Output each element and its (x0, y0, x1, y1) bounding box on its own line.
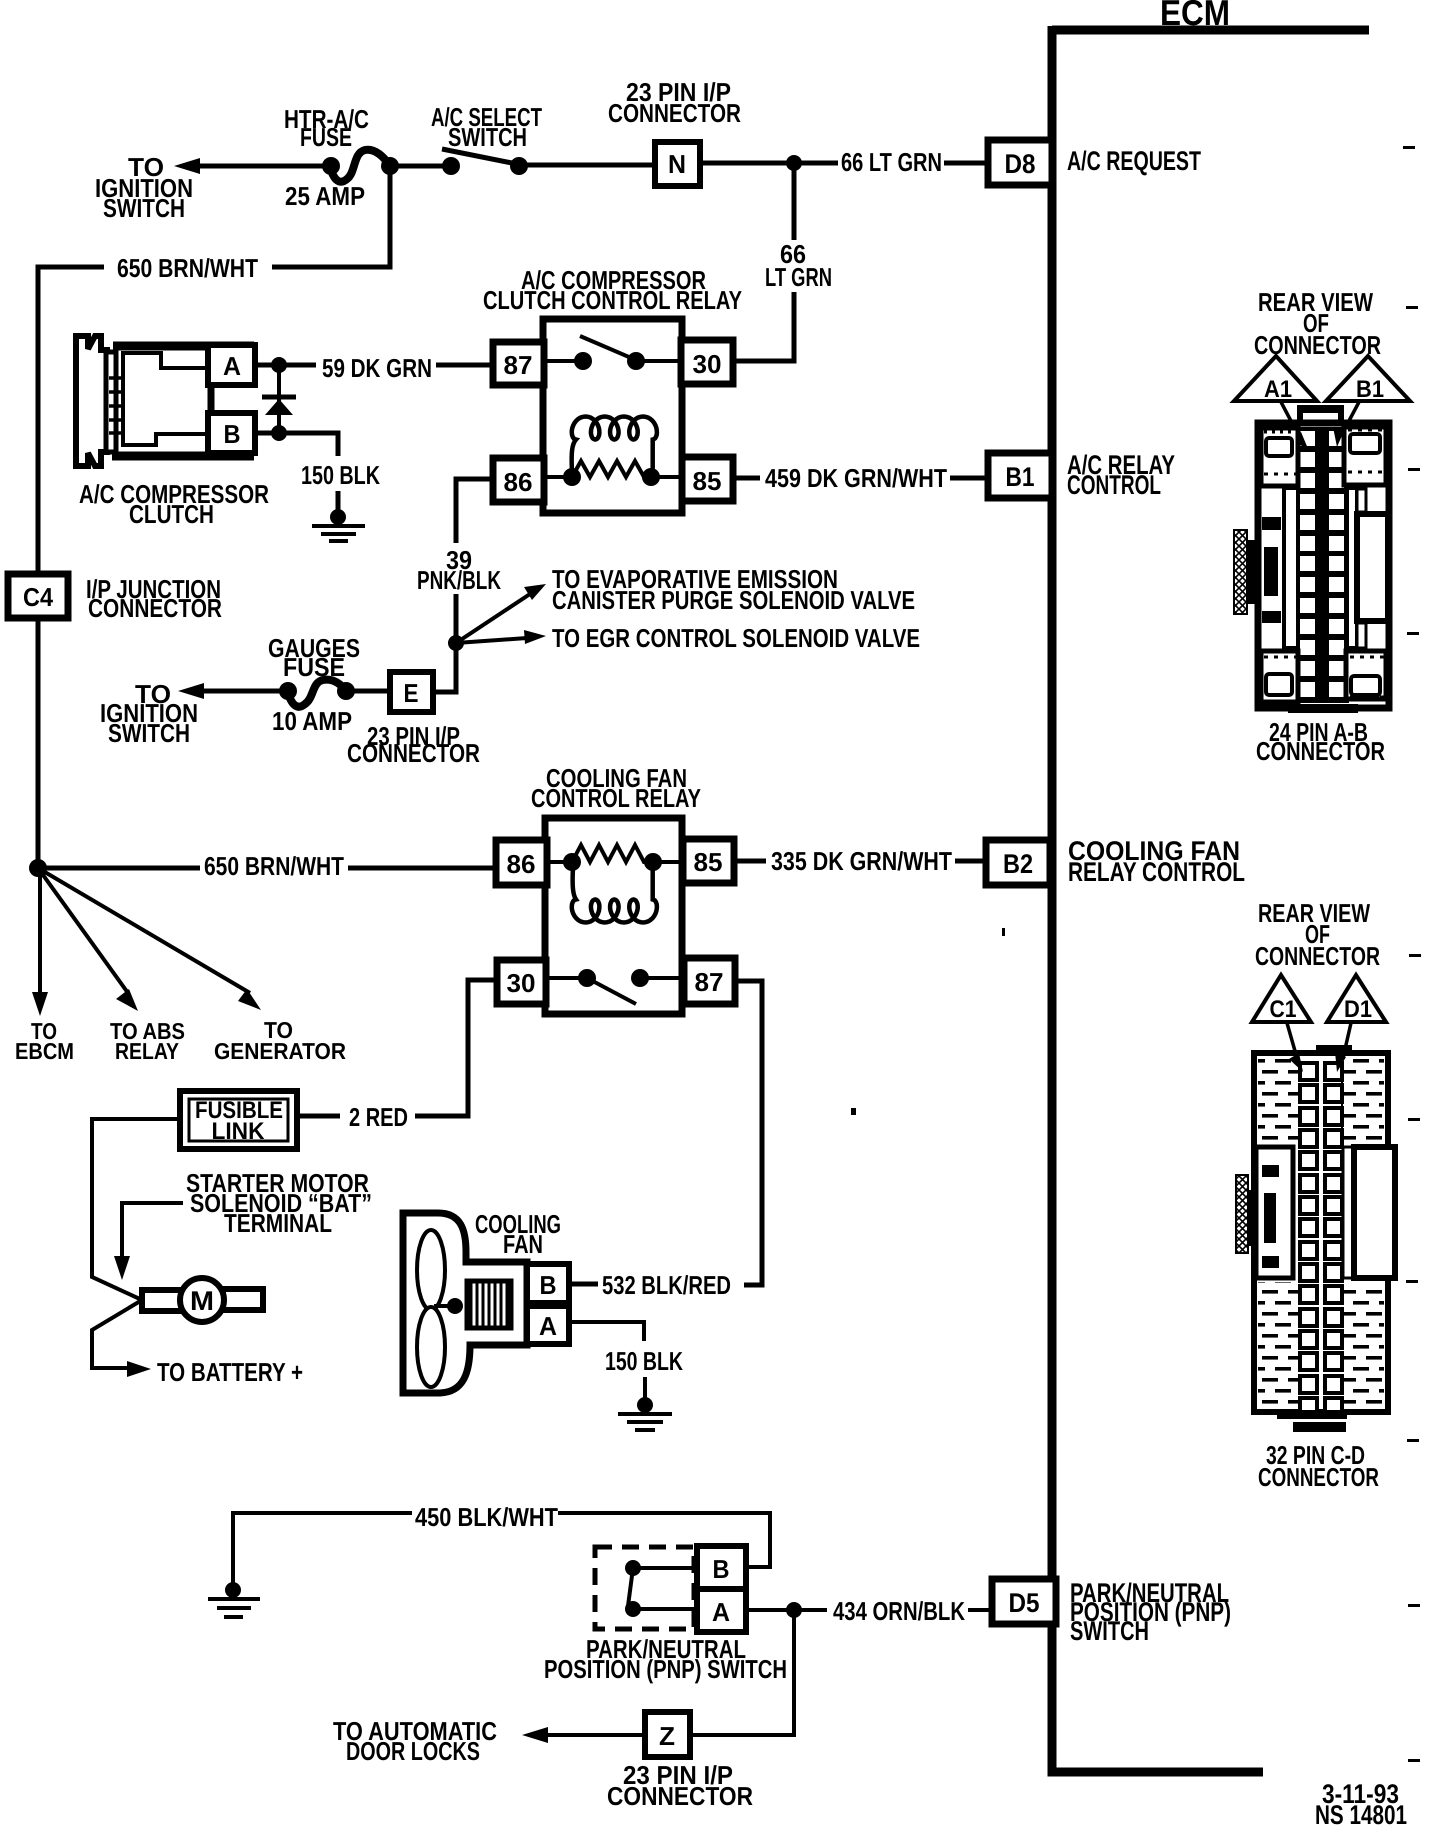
32 pin connector pin grid (1300, 1063, 1342, 1412)
150 BLK label (fan) (605, 1346, 683, 1376)
svg-text:RELAY CONTROL: RELAY CONTROL (1068, 857, 1245, 887)
svg-text:TERMINAL: TERMINAL (224, 1208, 332, 1238)
25 AMP label (285, 181, 365, 211)
svg-text:87: 87 (695, 967, 724, 997)
svg-text:CONNECTOR: CONNECTOR (347, 738, 480, 768)
wire 450 BLK/WHT (233, 1513, 770, 1583)
wire node down to connector Z (690, 1610, 794, 1735)
relay K2 cooling fan control relay body (545, 818, 682, 1014)
COOLING FAN RELAY CONTROL label (1068, 836, 1245, 887)
relay K1 coil (544, 417, 682, 487)
ECM module outline (1052, 26, 1369, 1772)
svg-text:CONNECTOR: CONNECTOR (1254, 330, 1381, 360)
svg-text:B1: B1 (1356, 376, 1384, 403)
A/C compressor clutch body (109, 346, 254, 456)
PNP switch pin B (697, 1546, 746, 1589)
connector C4 I/P junction (8, 574, 68, 618)
TO AUTOMATIC DOOR LOCKS label (333, 1716, 497, 1766)
ECM pin D5 (992, 1579, 1056, 1624)
svg-text:N: N (668, 149, 686, 179)
svg-text:FUSE: FUSE (283, 652, 345, 682)
svg-text:B: B (713, 1554, 730, 1584)
wire arrow to ABS relay (38, 868, 138, 1011)
TO EVAPORATIVE EMISSION CANISTER PURGE SOLENOID VALVE label (552, 564, 915, 615)
wire fuse to switch (390, 164, 451, 169)
connector E (23 pin I/P) (390, 672, 433, 712)
2 RED label (349, 1102, 408, 1132)
svg-text:532 BLK/RED: 532 BLK/RED (602, 1270, 731, 1300)
66 LT GRN label (horizontal) (841, 147, 942, 177)
ground (clutch) (312, 509, 365, 541)
arrow to battery + (127, 1361, 151, 1377)
32 pin connector left panel (1256, 1147, 1293, 1278)
wire pin B to ground node (255, 425, 338, 512)
svg-text:CONNECTOR: CONNECTOR (607, 1781, 753, 1811)
32 pin connector striped shell top-right (1341, 1057, 1384, 1142)
ground (fan) (618, 1397, 672, 1430)
REAR VIEW OF CONNECTOR label (24 pin) (1254, 287, 1381, 360)
svg-text:150 BLK: 150 BLK (301, 460, 380, 490)
wire 650 BRN/WHT (top left) (38, 166, 390, 868)
leader arrow from terminal label to motor (114, 1203, 183, 1280)
fuse GAUGES 10 AMP (279, 680, 390, 707)
svg-text:10 AMP: 10 AMP (272, 706, 352, 736)
wire PNP A to D5 with node (746, 1602, 992, 1618)
24 pin connector corner block bottom-left (1261, 651, 1298, 702)
32 pin connector striped shell top-left (1258, 1057, 1299, 1146)
svg-text:650 BRN/WHT: 650 BRN/WHT (117, 253, 258, 283)
wire junction down to connector E (433, 643, 456, 692)
32 pin connector right flange (1343, 1147, 1395, 1278)
650 BRN/WHT label (fan) (204, 851, 344, 881)
node 650 BRN/WHT distribution (29, 859, 47, 877)
relay K2 coil (547, 845, 683, 923)
A/C REQUEST label (1067, 146, 1201, 176)
32 pin connector striped shell bottom-left (1258, 1282, 1299, 1408)
32 pin connector striped shell bottom-right (1341, 1285, 1384, 1408)
23 PIN I/P CONNECTOR label (Z) (607, 1760, 753, 1811)
TO IGNITION SWITCH label (top) (95, 152, 193, 223)
connector N (23 pin I/P) (655, 142, 700, 186)
ECM pin B1 (988, 453, 1052, 498)
32 PIN C-D CONNECTOR label (1258, 1440, 1379, 1492)
wire fusible link to starter motor (92, 1119, 180, 1368)
node D1 pointer triangle (1327, 975, 1386, 1023)
pointer arrows A1 B1 into connector (1281, 402, 1359, 451)
svg-text:30: 30 (507, 968, 536, 998)
A/C SELECT SWITCH label (431, 102, 542, 152)
node B1 pointer triangle (1326, 356, 1410, 403)
24 pin connector latch tab (hatched) (1234, 530, 1258, 614)
svg-text:NS 14801: NS 14801 (1315, 1800, 1407, 1830)
32 pin connector latch tab (hatched) (1236, 1175, 1256, 1253)
svg-text:B2: B2 (1003, 849, 1033, 879)
A/C compressor clutch plate (106, 352, 116, 452)
relay K1 pin 87 (493, 342, 544, 385)
TO BATTERY + label (157, 1357, 303, 1387)
svg-text:FUSE: FUSE (300, 122, 352, 152)
ECM pin B2 (986, 840, 1050, 885)
svg-text:B: B (224, 419, 241, 449)
A/C COMPRESSOR CLUTCH label (79, 479, 269, 529)
wire switch to connector N (519, 163, 655, 168)
59 DK GRN label (322, 353, 432, 383)
svg-text:CONTROL RELAY: CONTROL RELAY (531, 783, 701, 813)
svg-text:D1: D1 (1344, 996, 1372, 1023)
24 pin connector corner block top-right (1344, 427, 1386, 485)
wire fan relay 85 to B2 (734, 859, 986, 864)
svg-text:30: 30 (693, 349, 722, 379)
cooling fan motor (hatched) (467, 1281, 511, 1328)
66 LT GRN label (vertical wire) (765, 239, 832, 292)
TO EGR CONTROL SOLENOID VALVE label (552, 623, 920, 653)
wire to ignition switch (gauges) (178, 683, 280, 699)
scan artifact marks (right margin) (851, 146, 1421, 1762)
svg-text:D5: D5 (1009, 1588, 1040, 1618)
I/P JUNCTION CONNECTOR label (86, 574, 222, 623)
svg-text:POSITION (PNP) SWITCH: POSITION (PNP) SWITCH (544, 1654, 787, 1684)
svg-text:434 ORN/BLK: 434 ORN/BLK (833, 1596, 965, 1626)
cooling fan pin A (527, 1306, 569, 1344)
REAR VIEW OF CONNECTOR label (32 pin) (1255, 898, 1380, 971)
diode (clutch suppression) (262, 365, 296, 433)
svg-text:25 AMP: 25 AMP (285, 181, 365, 211)
pointer arrows C1 D1 into connector (1287, 1023, 1351, 1072)
relay K1 pin 30 (681, 340, 733, 384)
relay K2 pin 85 (683, 839, 734, 883)
HTR-A/C FUSE label (284, 104, 369, 152)
svg-text:CLUTCH CONTROL RELAY: CLUTCH CONTROL RELAY (483, 285, 742, 315)
cooling fan housing (403, 1213, 527, 1393)
svg-text:B: B (540, 1270, 557, 1300)
svg-text:335 DK GRN/WHT: 335 DK GRN/WHT (771, 846, 952, 876)
PNP switch dashed body (595, 1547, 694, 1629)
A/C compressor clutch bracket (76, 336, 110, 466)
wire fusible link to fan relay 30 (297, 980, 497, 1116)
24 pin connector left slots (1262, 488, 1298, 648)
wire 650 BRN/WHT to fan relay 86 (38, 866, 494, 871)
svg-text:SWITCH: SWITCH (108, 718, 190, 748)
434 ORN/BLK label (833, 1596, 965, 1626)
svg-text:SWITCH: SWITCH (103, 193, 185, 223)
wire pin A to relay 87 with node (255, 357, 493, 373)
A/C compressor clutch pin B (208, 413, 255, 453)
ECM pin D8 (988, 140, 1052, 185)
24 pin connector corner block top-left (1261, 428, 1298, 486)
svg-text:66 LT GRN: 66 LT GRN (841, 147, 942, 177)
arrow to evaporative emission canister purge solenoid valve (456, 584, 546, 643)
svg-text:RELAY: RELAY (115, 1038, 179, 1064)
svg-text:CONNECTOR: CONNECTOR (1256, 736, 1385, 766)
10 AMP label (272, 706, 352, 736)
svg-text:PNK/BLK: PNK/BLK (417, 565, 501, 595)
relay K2 pin 87 (684, 958, 735, 1004)
wire relay 85 to B1 (A/C) (733, 476, 988, 481)
24 pin connector right slots (1347, 488, 1388, 648)
A/C RELAY CONTROL label (1067, 450, 1175, 500)
wire node down to relay pin 30 (733, 163, 794, 361)
svg-text:TO BATTERY +: TO BATTERY + (157, 1357, 303, 1387)
150 BLK label (clutch) (301, 460, 380, 490)
fusible link (180, 1091, 297, 1149)
ECM label (1160, 0, 1230, 33)
svg-text:A: A (223, 351, 241, 381)
connector Z (23 pin I/P) (645, 1712, 690, 1757)
459 DK GRN/WHT label (765, 463, 947, 493)
svg-text:A/C REQUEST: A/C REQUEST (1067, 146, 1201, 176)
svg-text:459 DK GRN/WHT: 459 DK GRN/WHT (765, 463, 947, 493)
wire relay 86 down to junction (448, 479, 493, 651)
relay K2 switch contact (546, 969, 684, 1004)
A/C COMPRESSOR CLUTCH CONTROL RELAY label (483, 265, 742, 315)
23 PIN I/P CONNECTOR label (top) (608, 77, 741, 128)
svg-text:CONTROL: CONTROL (1067, 470, 1161, 500)
A/C compressor clutch pin A (208, 345, 255, 385)
450 BLK/WHT label (415, 1502, 558, 1532)
svg-text:450 BLK/WHT: 450 BLK/WHT (415, 1502, 558, 1532)
32 pin C-D connector body (1254, 1045, 1388, 1432)
wire arrow to EBCM (32, 868, 48, 1016)
TO EBCM label (15, 1018, 74, 1064)
svg-text:Z: Z (659, 1721, 675, 1751)
svg-text:86: 86 (507, 849, 536, 879)
svg-text:87: 87 (504, 350, 533, 380)
svg-text:M: M (190, 1286, 214, 1316)
svg-text:E: E (404, 678, 419, 708)
STARTER MOTOR SOLENOID BAT TERMINAL label (186, 1168, 372, 1238)
svg-text:A1: A1 (1264, 376, 1292, 403)
COOLING FAN label (475, 1209, 561, 1259)
A/C select switch (442, 149, 528, 175)
wire arrow to generator (38, 868, 261, 1010)
svg-text:SWITCH: SWITCH (448, 122, 527, 152)
wire N to D8 with node (700, 155, 988, 171)
arrow to EGR control solenoid valve (456, 630, 546, 644)
relay K1 pin 85 (682, 457, 733, 501)
24 pin A-B connector body (1258, 405, 1389, 713)
335 DK GRN/WHT label (771, 846, 952, 876)
svg-text:D8: D8 (1005, 149, 1036, 179)
650 BRN/WHT label (top) (117, 253, 258, 283)
svg-text:CANISTER PURGE SOLENOID VALVE: CANISTER PURGE SOLENOID VALVE (552, 585, 915, 615)
TO GENERATOR label (214, 1017, 346, 1064)
svg-text:ECM: ECM (1160, 0, 1230, 33)
node C1 pointer triangle (1252, 975, 1311, 1023)
node A1 pointer triangle (1234, 356, 1317, 403)
24 pin connector pin grid (1295, 427, 1349, 703)
39 PNK/BLK label (417, 545, 501, 595)
PNP switch contacts (625, 1560, 697, 1617)
svg-text:86: 86 (504, 467, 533, 497)
svg-text:CONNECTOR: CONNECTOR (88, 593, 222, 623)
PARK/NEUTRAL POSITION (PNP) SWITCH label (component) (544, 1634, 787, 1684)
relay K1 switch contact (544, 336, 681, 370)
svg-text:GENERATOR: GENERATOR (214, 1038, 346, 1064)
svg-text:85: 85 (693, 466, 722, 496)
svg-text:A: A (539, 1311, 557, 1341)
GAUGES FUSE label (268, 633, 360, 682)
TO IGNITION SWITCH label (gauges) (100, 679, 198, 748)
svg-text:85: 85 (694, 847, 723, 877)
svg-text:TO EGR CONTROL SOLENOID VALVE: TO EGR CONTROL SOLENOID VALVE (552, 623, 920, 653)
svg-text:DOOR LOCKS: DOOR LOCKS (346, 1736, 480, 1766)
TO ABS RELAY label (110, 1018, 185, 1064)
wire fan pin A to ground (569, 1322, 645, 1398)
PNP switch pin A (697, 1589, 746, 1632)
svg-text:650 BRN/WHT: 650 BRN/WHT (204, 851, 344, 881)
23 PIN I/P CONNECTOR label (E) (347, 721, 480, 768)
wire fan relay 87 down to cooling fan B (569, 981, 762, 1285)
arrow to automatic door locks (522, 1727, 645, 1743)
24 pin connector corner block bottom-right (1346, 651, 1386, 699)
COOLING FAN CONTROL RELAY label (531, 763, 701, 813)
24 PIN A-B CONNECTOR label (1256, 717, 1385, 766)
svg-text:2 RED: 2 RED (349, 1102, 408, 1132)
svg-text:150 BLK: 150 BLK (605, 1346, 683, 1376)
svg-text:EBCM: EBCM (15, 1038, 74, 1064)
relay K2 pin 30 (497, 960, 546, 1004)
svg-text:CONNECTOR: CONNECTOR (1258, 1462, 1379, 1492)
svg-text:A: A (712, 1597, 730, 1627)
532 BLK/RED label (602, 1270, 731, 1300)
relay K2 pin 86 (496, 840, 547, 885)
svg-text:CLUTCH: CLUTCH (129, 499, 214, 529)
svg-text:59 DK GRN: 59 DK GRN (322, 353, 432, 383)
cooling fan blades (417, 1230, 463, 1387)
fuse HTR-A/C 25 AMP (322, 150, 399, 182)
date note (1315, 1779, 1407, 1830)
relay K1 pin 86 (493, 458, 544, 502)
ground (PNP circuit) (208, 1582, 260, 1617)
svg-text:C1: C1 (1270, 996, 1297, 1023)
cooling fan pin B (527, 1264, 569, 1303)
svg-text:B1: B1 (1006, 462, 1035, 492)
svg-text:C4: C4 (23, 582, 53, 612)
PARK/NEUTRAL POSITION (PNP) SWITCH label (ECM side) (1070, 1578, 1231, 1646)
svg-text:LT GRN: LT GRN (765, 262, 832, 292)
svg-text:CONNECTOR: CONNECTOR (1255, 941, 1380, 971)
relay K1 A/C compressor clutch control relay body (543, 319, 682, 513)
wire to ignition switch (top) (174, 158, 330, 174)
svg-text:CONNECTOR: CONNECTOR (608, 98, 741, 128)
svg-text:FAN: FAN (503, 1229, 543, 1259)
svg-text:LINK: LINK (212, 1118, 266, 1145)
svg-text:SWITCH: SWITCH (1070, 1616, 1149, 1646)
starter motor M (142, 1278, 263, 1322)
